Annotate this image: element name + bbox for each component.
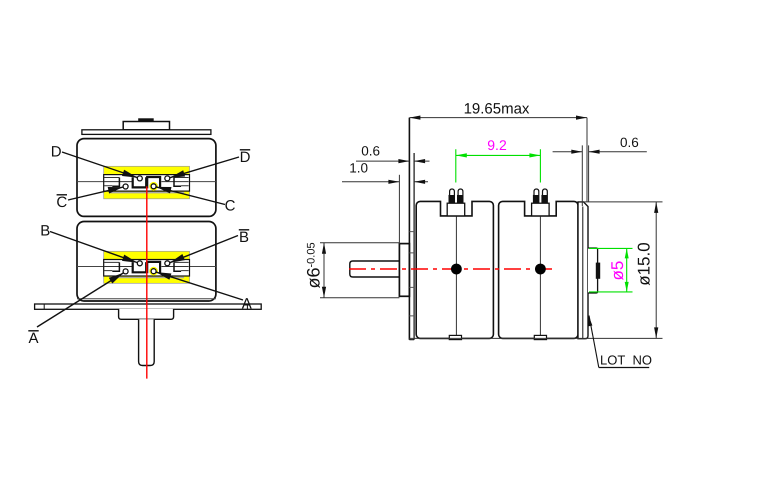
- hub side view: [399, 244, 409, 297]
- svg-text:B: B: [239, 229, 249, 246]
- shaft front view: [139, 319, 155, 365]
- shaft side view: [350, 261, 400, 277]
- motor M1 lower can: [77, 222, 216, 302]
- centerline front view: [146, 186, 148, 378]
- leader D: [62, 152, 137, 178]
- dim 19.65max extension lines: [586, 118, 588, 202]
- coil CD yellow body: [104, 166, 190, 199]
- dim dia5 extension lines: [589, 248, 633, 292]
- svg-text:A: A: [28, 330, 38, 347]
- screw dot right: [535, 264, 546, 275]
- leader Bbar: [170, 236, 238, 263]
- flange side view: [408, 118, 410, 340]
- bearing boss: [588, 248, 598, 293]
- svg-text:0.6: 0.6: [620, 135, 639, 150]
- coil CD terminal pin Dbar: [165, 176, 170, 181]
- motor M1 top plate: [82, 130, 211, 135]
- coil AB terminal pin B: [137, 261, 142, 266]
- left can side view: [416, 201, 493, 338]
- coil CD winding shade: [109, 192, 184, 194]
- coil AB terminal pin Bbar: [165, 261, 170, 266]
- centerline side view: [349, 268, 553, 270]
- coil AB pole claw inverted U: [147, 262, 160, 273]
- dim 9.2 extension lines: [456, 149, 541, 182]
- coil AB lamination lines: [104, 262, 189, 270]
- svg-text:9.2: 9.2: [487, 137, 507, 153]
- terminal block 2 base: [532, 203, 550, 216]
- coil CD terminal D halo: [149, 182, 158, 191]
- coil CD terminal pin D: [137, 176, 142, 181]
- motor M1 lower seam line: [77, 266, 216, 268]
- coil AB yellow body: [104, 251, 190, 283]
- dim 0.6 right lines: [553, 151, 647, 153]
- right can side view: [499, 201, 578, 338]
- bottom crimp tab right: [534, 335, 546, 339]
- bottom crimp tab left: [449, 335, 461, 339]
- mounting plate ticks: [44, 304, 247, 309]
- coil AB bobbin band: [104, 260, 190, 277]
- terminal block 1 base: [447, 203, 465, 216]
- leader Abar: [37, 273, 123, 327]
- shaft end stub: [596, 263, 600, 279]
- mounting plate: [35, 304, 262, 309]
- coil AB terminal A halo: [149, 267, 158, 276]
- dim dia5 line: [626, 248, 628, 292]
- flange hole ticks: [409, 232, 414, 316]
- coil CD terminal pin Cbar: [123, 184, 128, 189]
- coil AB pole step right: [174, 262, 181, 271]
- svg-text:0.6: 0.6: [361, 144, 380, 159]
- dim 9.2 line: [456, 154, 541, 156]
- dim 0.6 left lines: [356, 160, 430, 162]
- svg-text:B: B: [40, 223, 50, 240]
- motor M1 upper seam line: [77, 181, 216, 183]
- coil AB pole step left: [112, 262, 119, 271]
- svg-text:19.65max: 19.65max: [464, 101, 530, 118]
- coil CD pole claw U: [133, 177, 147, 187]
- coil AB pole claw U: [133, 262, 147, 272]
- coil AB terminal pin Abar: [123, 269, 128, 274]
- svg-text:LOT NO: LOT NO: [600, 353, 652, 368]
- leader B: [50, 232, 137, 263]
- motor M1 top tab: [138, 118, 154, 121]
- svg-text:D: D: [240, 149, 251, 166]
- motor M1 upper can: [77, 139, 216, 217]
- svg-text:A: A: [242, 296, 252, 313]
- leader Dbar: [170, 157, 239, 178]
- LOT NO underline: [599, 367, 649, 369]
- svg-text:ø15.0: ø15.0: [634, 242, 653, 285]
- can seam lines: [456, 216, 540, 339]
- dim dia6 line: [323, 243, 325, 298]
- svg-text:C: C: [225, 197, 236, 214]
- leader Cbar: [68, 187, 123, 200]
- motor M1 bottom seam: [77, 298, 216, 300]
- terminal block 2 caps: [534, 189, 539, 195]
- boss: [119, 309, 174, 319]
- terminal block 2 pins: [533, 195, 540, 204]
- back plate inner line: [582, 207, 584, 339]
- terminal block 1 caps: [450, 189, 455, 195]
- coil CD pole step right: [174, 178, 181, 187]
- coil CD bobbin band: [104, 175, 190, 192]
- back plate: [578, 202, 588, 339]
- coil CD pole step left: [112, 178, 119, 187]
- coil AB winding shade: [109, 277, 184, 279]
- svg-text:C: C: [56, 194, 67, 211]
- dim dia15 extension lines: [409, 202, 662, 339]
- leader A: [156, 272, 243, 300]
- svg-text:D: D: [51, 143, 62, 160]
- dim dia6 extension lines: [320, 243, 399, 298]
- motor M1 top cap: [123, 122, 169, 130]
- dim 19.65max line: [409, 117, 587, 119]
- svg-text:ø5: ø5: [608, 261, 627, 281]
- terminal block 1 pins: [449, 195, 456, 204]
- LOT NO leader: [589, 316, 599, 368]
- coil CD lamination lines: [104, 178, 189, 186]
- coil AB terminal pin A: [151, 269, 156, 274]
- coil CD terminal pin C: [151, 184, 156, 189]
- svg-text:1.0: 1.0: [349, 160, 368, 175]
- leader C: [156, 187, 225, 205]
- dim dia15 line: [655, 202, 657, 339]
- coil CD pole claw inverted U: [147, 177, 160, 188]
- screw dot left: [451, 264, 462, 275]
- dim 1.0 lines: [342, 181, 428, 183]
